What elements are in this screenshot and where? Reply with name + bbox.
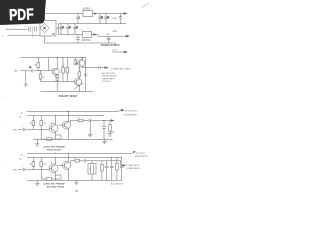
transistor Q4 [63, 121, 71, 129]
svg-text:MIC: MIC [13, 129, 17, 131]
wire row2 +V rail [21, 57, 86, 59]
arrow -V rail end [126, 35, 129, 37]
transistor Q5 [49, 164, 58, 173]
capacitor C4 [76, 14, 80, 24]
svg-text:AUDIO MIC PREAMP: AUDIO MIC PREAMP [43, 182, 65, 185]
potentiometer arrow [74, 83, 84, 90]
svg-text:LM7912: LM7912 [82, 40, 91, 42]
svg-text:ALL RES 1/2W: ALL RES 1/2W [102, 72, 115, 75]
wire row4 bottom rail [27, 179, 122, 181]
capacitor C8 [76, 35, 80, 44]
svg-text:OF AMPLIFIER: OF AMPLIFIER [126, 167, 140, 170]
wire row3 bottom rail [33, 138, 113, 140]
wire Q6 collector [67, 153, 69, 162]
resistor R5b [66, 58, 68, 82]
svg-text:CAPS IN MFD: CAPS IN MFD [102, 77, 115, 80]
pencil mark top right [142, 4, 150, 9]
svg-text:+: + [79, 17, 80, 19]
resistor R7 [40, 116, 42, 130]
wire Q5 collector [54, 157, 56, 165]
wire row3 output line [70, 121, 111, 123]
ground GND2c [88, 121, 93, 137]
wire row3 +12 rail [27, 110, 122, 111]
wire bridge right to mid rails [56, 24, 59, 35]
transformer U3 [88, 164, 96, 175]
svg-text:VOLTS DC: VOLTS DC [102, 81, 112, 83]
wire Q3 emitter [54, 132, 56, 140]
capacitor C12 [84, 74, 87, 76]
svg-text:25: 25 [107, 17, 109, 19]
PDF badge text [9, 5, 35, 24]
node junction dots [40, 57, 105, 154]
capacitor C2 [66, 24, 70, 35]
wire bottom return rail [45, 36, 113, 43]
resistor R13 [116, 157, 118, 180]
resistor R11 [40, 157, 42, 169]
svg-text:LM7812: LM7812 [83, 9, 92, 11]
wire +V unregulated rail [45, 13, 124, 15]
arrow on rail after U2 [93, 34, 96, 36]
transistor Q6 [63, 161, 71, 169]
arrow row3 rail end [121, 109, 124, 111]
ground GND2 [108, 134, 113, 136]
regulator U1 [83, 10, 93, 16]
wire row4 B+ rail [27, 156, 122, 158]
ground GND4 [35, 180, 39, 186]
svg-text:10: 10 [29, 67, 31, 69]
capacitor C20 series [84, 159, 86, 162]
svg-text:AUDIO MIC PREAMP: AUDIO MIC PREAMP [43, 146, 65, 149]
wire Q6 emitter [67, 169, 69, 181]
capacitor C3 [73, 24, 77, 35]
arrow aux output end [124, 51, 127, 53]
resistor R1 [37, 58, 39, 71]
svg-text:+−: +− [53, 33, 55, 35]
ground GND5 [74, 180, 78, 184]
wire Q5 emitter [54, 172, 56, 181]
regulator U2 [83, 31, 92, 37]
wire Q1 collector [56, 58, 58, 69]
wire row2 bottom rail [41, 90, 94, 92]
wire Q2 emitter [82, 66, 84, 67]
capacitor C6 [104, 14, 108, 24]
wire row4 signal bus [70, 161, 120, 163]
bridge rectifier BR1 box [40, 20, 56, 36]
wire Q2b collector [78, 68, 80, 80]
svg-text:PREAMP MIXER: PREAMP MIXER [59, 95, 78, 98]
capacitor C9 [107, 36, 111, 43]
svg-text:PDF: PDF [9, 5, 35, 24]
capacitor C18 [120, 157, 124, 180]
PDF badge [0, 0, 46, 25]
bridge rectifier BR1 diamond [40, 24, 49, 33]
arrow on rail after U1 [94, 13, 97, 15]
svg-text:UNLESS NOTED: UNLESS NOTED [102, 76, 117, 78]
svg-text:SECOND STAGE: SECOND STAGE [47, 185, 65, 188]
wire mid rail GND [59, 23, 126, 24]
svg-text:FROM SUPPLY: FROM SUPPLY [135, 156, 149, 158]
bridge rectifier center dot [44, 27, 46, 29]
svg-text:GND: GND [110, 132, 115, 134]
capacitor C10 [31, 69, 33, 72]
resistor R8 [109, 121, 111, 134]
svg-text:TO TAPE REC. INPUT: TO TAPE REC. INPUT [111, 67, 132, 70]
transformer T1 [29, 26, 36, 31]
arrow row4 output [123, 165, 126, 167]
wire Q2 collector [82, 58, 84, 60]
left margin specks [2, 96, 4, 162]
resistor R4 [40, 71, 42, 82]
arrow +V rail end [124, 13, 127, 15]
wire AC input line 2 [8, 34, 41, 36]
transformer core dashed line [32, 27, 34, 38]
resistor R15 series [78, 119, 83, 122]
wire U3 bottom [91, 174, 93, 180]
ground GND3 [35, 139, 39, 146]
wire row3 input [18, 128, 49, 130]
resistor R12 [101, 161, 103, 181]
resistor R2 emitter [56, 78, 58, 79]
svg-text:47: 47 [69, 27, 71, 29]
capacitor C13 [23, 128, 25, 131]
resistor R3 [75, 58, 77, 65]
svg-text:MIC: MIC [13, 169, 17, 171]
wire Q4 emitter [67, 128, 69, 139]
capacitor C1 [59, 24, 63, 35]
wire row3 B+ rail [27, 115, 104, 117]
arrow row4 rail end [132, 151, 136, 153]
resistor R10 [32, 157, 34, 169]
arrow row2 output [105, 67, 108, 69]
capacitor C19 series [89, 119, 91, 122]
wire output drop [85, 68, 87, 92]
transistor Q2 [78, 60, 85, 67]
svg-text:FIRST STAGE: FIRST STAGE [47, 149, 62, 152]
svg-text:GND: GND [112, 31, 117, 33]
resistor R17 [78, 72, 81, 76]
svg-text:Q1: Q1 [50, 162, 52, 164]
wire row4 input [18, 169, 49, 171]
wire row2 input [21, 70, 52, 72]
wire bridge output to +V rail [44, 14, 46, 21]
svg-text:.1: .1 [22, 166, 23, 168]
wire Q4 collector [67, 111, 69, 122]
transistor Q3 [49, 124, 58, 133]
wire row4 output [121, 161, 123, 166]
capacitor C5 [98, 14, 102, 24]
feedback resistor R14 [41, 170, 61, 180]
wire Q3 collector [54, 116, 56, 125]
wire -V rail [59, 35, 127, 37]
arrow row3 output [111, 120, 114, 122]
svg-text:POWER SUPPLY: POWER SUPPLY [101, 44, 120, 47]
wire bias line [41, 81, 75, 83]
feedback resistor R9 [41, 129, 61, 139]
svg-text:+12 VOLTS: +12 VOLTS [135, 153, 146, 155]
capacitor C7 [119, 14, 122, 24]
wire row2 rail elbow to output [83, 58, 105, 68]
capacitor C14 [102, 121, 106, 140]
wire base feed [48, 58, 50, 71]
capacitor C11 [99, 66, 101, 69]
ground GND1 [24, 71, 28, 87]
svg-text:.1: .1 [22, 126, 23, 128]
svg-text:TO AUX INPUT: TO AUX INPUT [126, 164, 140, 167]
resistor R5 [62, 58, 64, 82]
svg-text:47: 47 [62, 27, 64, 29]
capacitor C15 [23, 168, 25, 171]
svg-text:47: 47 [76, 27, 78, 29]
wire row4 +12 rail [27, 152, 132, 154]
capacitor C17 [110, 157, 114, 180]
svg-text:Q1: Q1 [50, 122, 52, 124]
svg-text:6.3V: 6.3V [112, 50, 117, 52]
wire Q2b emitter [78, 85, 80, 91]
wire aux output [112, 51, 124, 53]
svg-text:Q1: Q1 [51, 69, 53, 71]
svg-text:FROM SUPPLY: FROM SUPPLY [124, 115, 139, 117]
svg-text:ALL CAPS 10V: ALL CAPS 10V [111, 183, 124, 186]
transistor Q1 [52, 68, 59, 75]
svg-text:MIC: MIC [14, 71, 18, 73]
svg-text:25: 25 [101, 17, 103, 19]
svg-text:5: 5 [100, 125, 101, 127]
transistor Q2b [74, 78, 81, 85]
resistor R6 [32, 116, 34, 130]
capacitor C2e emitter bypass [55, 79, 59, 92]
resistor R16 series [75, 160, 80, 163]
wire AC input line 1 [7, 28, 28, 30]
ground GND2b [102, 139, 106, 143]
capacitor C16 [105, 161, 109, 181]
svg-text:+12 VOLTS DC: +12 VOLTS DC [124, 111, 138, 113]
wire U3 top [91, 161, 93, 164]
svg-text:T1: T1 [89, 169, 91, 171]
